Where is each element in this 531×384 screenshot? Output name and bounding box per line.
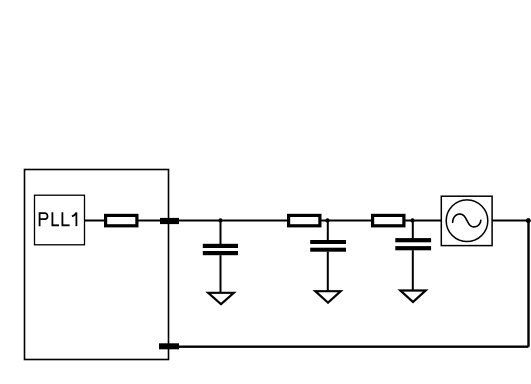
wire R3 to node C	[405, 220, 414, 222]
wire right side down	[527, 221, 529, 347]
node C junction	[410, 218, 414, 222]
capacitor C1	[203, 244, 238, 255]
AC source V1 circle	[446, 200, 488, 242]
wire node A to R2	[221, 220, 288, 222]
capacitor C2 top lead	[327, 221, 329, 241]
node A junction	[218, 218, 222, 222]
wire PLL1 output to R1	[85, 220, 106, 222]
corner junction dot	[526, 218, 531, 223]
AC source V1 box	[441, 196, 492, 245]
port pad (module ground pin)	[159, 343, 179, 349]
ground GND3	[400, 291, 425, 303]
wire pad to node A	[179, 220, 221, 222]
resistor R3	[373, 215, 404, 225]
ground GND2	[315, 291, 340, 303]
capacitor C1 top lead	[220, 221, 222, 245]
AC source V1 sine wave	[453, 214, 481, 227]
ground GND1	[208, 293, 234, 304]
wire bottom return	[178, 346, 529, 348]
capacitor C2	[310, 240, 346, 252]
PLL1 block	[35, 195, 85, 245]
resistor R1	[106, 215, 137, 225]
port pad (module output pin)	[160, 218, 179, 224]
module block outline	[25, 170, 169, 360]
wire R1 to output pad	[139, 220, 162, 222]
capacitor C3 bottom lead	[412, 250, 414, 290]
wire node B to R3	[328, 220, 372, 222]
resistor R2	[289, 215, 320, 225]
node B junction	[325, 218, 329, 222]
wire node C to source box	[413, 220, 442, 222]
capacitor C2 bottom lead	[327, 252, 329, 291]
wire source to right corner	[492, 220, 529, 222]
wire R2 to node B	[321, 220, 329, 222]
capacitor C3 top lead	[412, 221, 414, 239]
capacitor C3	[395, 238, 431, 250]
capacitor C1 bottom lead	[220, 255, 222, 292]
